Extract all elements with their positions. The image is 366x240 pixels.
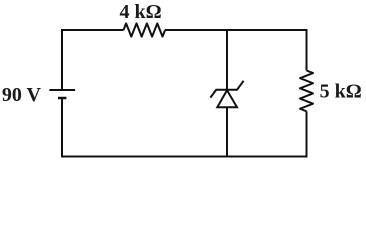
wire: bottom rail from zener bottom junction to bottom-right corner xyxy=(227,156,308,158)
zener diode D1: cathode bar with bent ends xyxy=(210,81,243,98)
resistor R1 4 kOhm (horizontal zigzag) xyxy=(124,23,166,36)
wire: left branch lower lead (battery - down to bottom-left corner) xyxy=(61,98,63,157)
zener diode D1: anode triangle xyxy=(217,90,237,107)
svg-text:90 V: 90 V xyxy=(2,84,42,106)
wire: bottom rail from bottom-left corner to zener bottom junction xyxy=(61,156,227,158)
wire: zener upper lead (node A down to cathode bar) xyxy=(226,30,228,90)
wire: top-left segment (battery + up to top-left corner, across to R1) xyxy=(62,30,124,90)
wire: right branch upper lead (top-right corner down to R2) xyxy=(306,29,308,71)
wire: zener lower lead (triangle base down to bottom rail) xyxy=(226,107,228,157)
wire: top rail from R1 to node A (zener top junction) xyxy=(165,29,227,31)
battery V1: negative plate (short) xyxy=(58,97,66,100)
wire: top rail from node A to top-right corner xyxy=(227,29,307,31)
resistor R2 5 kOhm (vertical zigzag) xyxy=(300,71,313,112)
svg-text:5 kΩ: 5 kΩ xyxy=(320,81,362,103)
battery V1: positive plate (long) xyxy=(49,89,75,91)
wire: right branch lower lead (R2 down to bottom-right corner) xyxy=(306,111,308,156)
svg-text:4 kΩ: 4 kΩ xyxy=(120,1,162,23)
